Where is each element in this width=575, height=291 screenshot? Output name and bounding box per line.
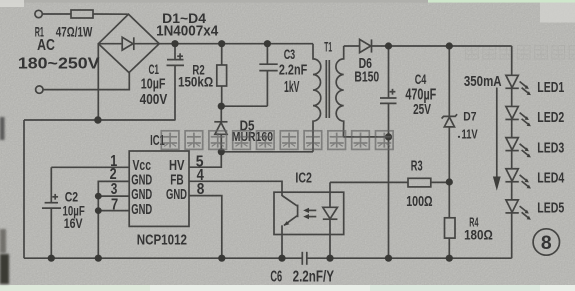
resistor R3	[330, 181, 408, 183]
junction R4 ground	[446, 255, 453, 262]
junction D7 top	[446, 42, 453, 49]
wire D5 node to transformer primary bottom	[221, 151, 313, 153]
junction C4 top	[385, 42, 392, 49]
junction C3 top	[264, 40, 271, 47]
IC1 pin 4 wire (FB)	[189, 181, 282, 192]
capacitor C2	[50, 167, 52, 202]
wire R1 to bridge top corner	[93, 13, 129, 15]
faint watermark top right	[466, 46, 575, 59]
top scan edge band	[0, 0, 575, 3]
junction R3/D7/R4 node	[446, 178, 453, 185]
diode D6	[360, 39, 371, 52]
junction secondary/C4 ground node	[385, 133, 392, 140]
resistor R1	[71, 10, 93, 18]
wire bridge left corner down	[97, 44, 99, 120]
junction pin3	[95, 193, 102, 200]
resistor R2	[221, 44, 223, 65]
C4 plus sign	[390, 91, 396, 93]
junction pin7	[95, 207, 102, 214]
bridge rectifier D1~D4 diamond	[98, 14, 159, 72]
IC1 pin 7 wire	[98, 210, 129, 212]
wire R2 bottom to C3 bottom	[221, 105, 267, 107]
bridge diode line	[98, 43, 159, 45]
transformer T1 primary	[313, 44, 321, 152]
LED string column	[511, 46, 513, 258]
scan artifact left edge lower	[0, 229, 6, 253]
transformer T1 secondary	[336, 46, 344, 137]
artifact dot before 11V	[458, 136, 460, 138]
bridge diode cathode bar	[133, 37, 135, 50]
capacitor C3	[266, 44, 268, 64]
junction pins 2-3-7 ground	[95, 255, 102, 262]
IC1 pin 8 wire (GND)	[189, 196, 222, 259]
IC2 LED	[329, 182, 331, 207]
350mA current arrow	[496, 88, 498, 178]
IC2 phototransistor	[281, 192, 283, 196]
IC1 pin 1 wire (Vcc)	[51, 166, 129, 168]
LED1	[505, 75, 531, 95]
LED3	[505, 138, 531, 158]
LED2	[505, 106, 531, 126]
top DC+ rail (primary side)	[159, 43, 313, 45]
scan artifact left edge mid	[0, 117, 5, 140]
junction bridge negative node	[94, 116, 101, 123]
capacitor C1 wires	[174, 44, 176, 60]
LED4	[505, 169, 531, 189]
IC1 pin 5 wire (HV)	[189, 152, 221, 167]
junction C4 ground	[385, 255, 392, 262]
IC1 pin 3 wire	[98, 195, 129, 197]
capacitor C4	[388, 46, 390, 98]
capacitor C6 plates (Y-cap in ground rail)	[301, 252, 303, 265]
C2 plus sign	[52, 196, 58, 198]
LED5	[505, 200, 531, 220]
bridge diode triangle	[122, 37, 133, 50]
secondary top rail to D6	[344, 45, 360, 47]
bottom ground rail (right of C6)	[307, 257, 512, 259]
junction IC2 emitter ground	[278, 255, 285, 262]
wire terminal2 to bridge bottom corner	[43, 73, 129, 90]
wire terminal1 to R1	[42, 13, 71, 15]
AC input terminal (top)	[35, 10, 42, 17]
junction C2 ground	[48, 255, 55, 262]
bottom scan strip	[0, 285, 575, 291]
junction R2 top	[218, 40, 225, 47]
diode D5	[220, 106, 222, 122]
wire left vertical down	[23, 120, 25, 258]
junction IC2 LED ground	[326, 255, 333, 262]
output DC+ rail	[372, 45, 512, 47]
output terminal circle 8	[533, 229, 559, 255]
C1 plus sign	[177, 55, 183, 57]
junction R2/D5/C3 node	[218, 103, 225, 110]
IC2 light arrows	[306, 209, 316, 211]
junction D5/HV/primary node	[218, 148, 225, 155]
zener diode D7	[448, 46, 450, 116]
wire horizontal negative bus y=120	[24, 119, 176, 121]
junction pin8 ground	[218, 255, 225, 262]
watermark company name	[161, 131, 393, 150]
transformer T1 core	[325, 60, 327, 118]
resistor R4	[448, 182, 450, 218]
bottom ground rail (left of C6)	[24, 257, 302, 259]
AC input terminal (bottom)	[36, 86, 43, 93]
scan artifact bottom left corner	[0, 254, 9, 284]
IC1 NCP1012 box	[129, 151, 189, 226]
IC2 optocoupler box	[274, 192, 344, 234]
capacitor C1 plates	[167, 59, 184, 61]
wire secondary bottom to C4 line	[343, 136, 388, 138]
junction C1 top	[171, 40, 178, 47]
IC1 pin 2 wire	[98, 181, 129, 258]
